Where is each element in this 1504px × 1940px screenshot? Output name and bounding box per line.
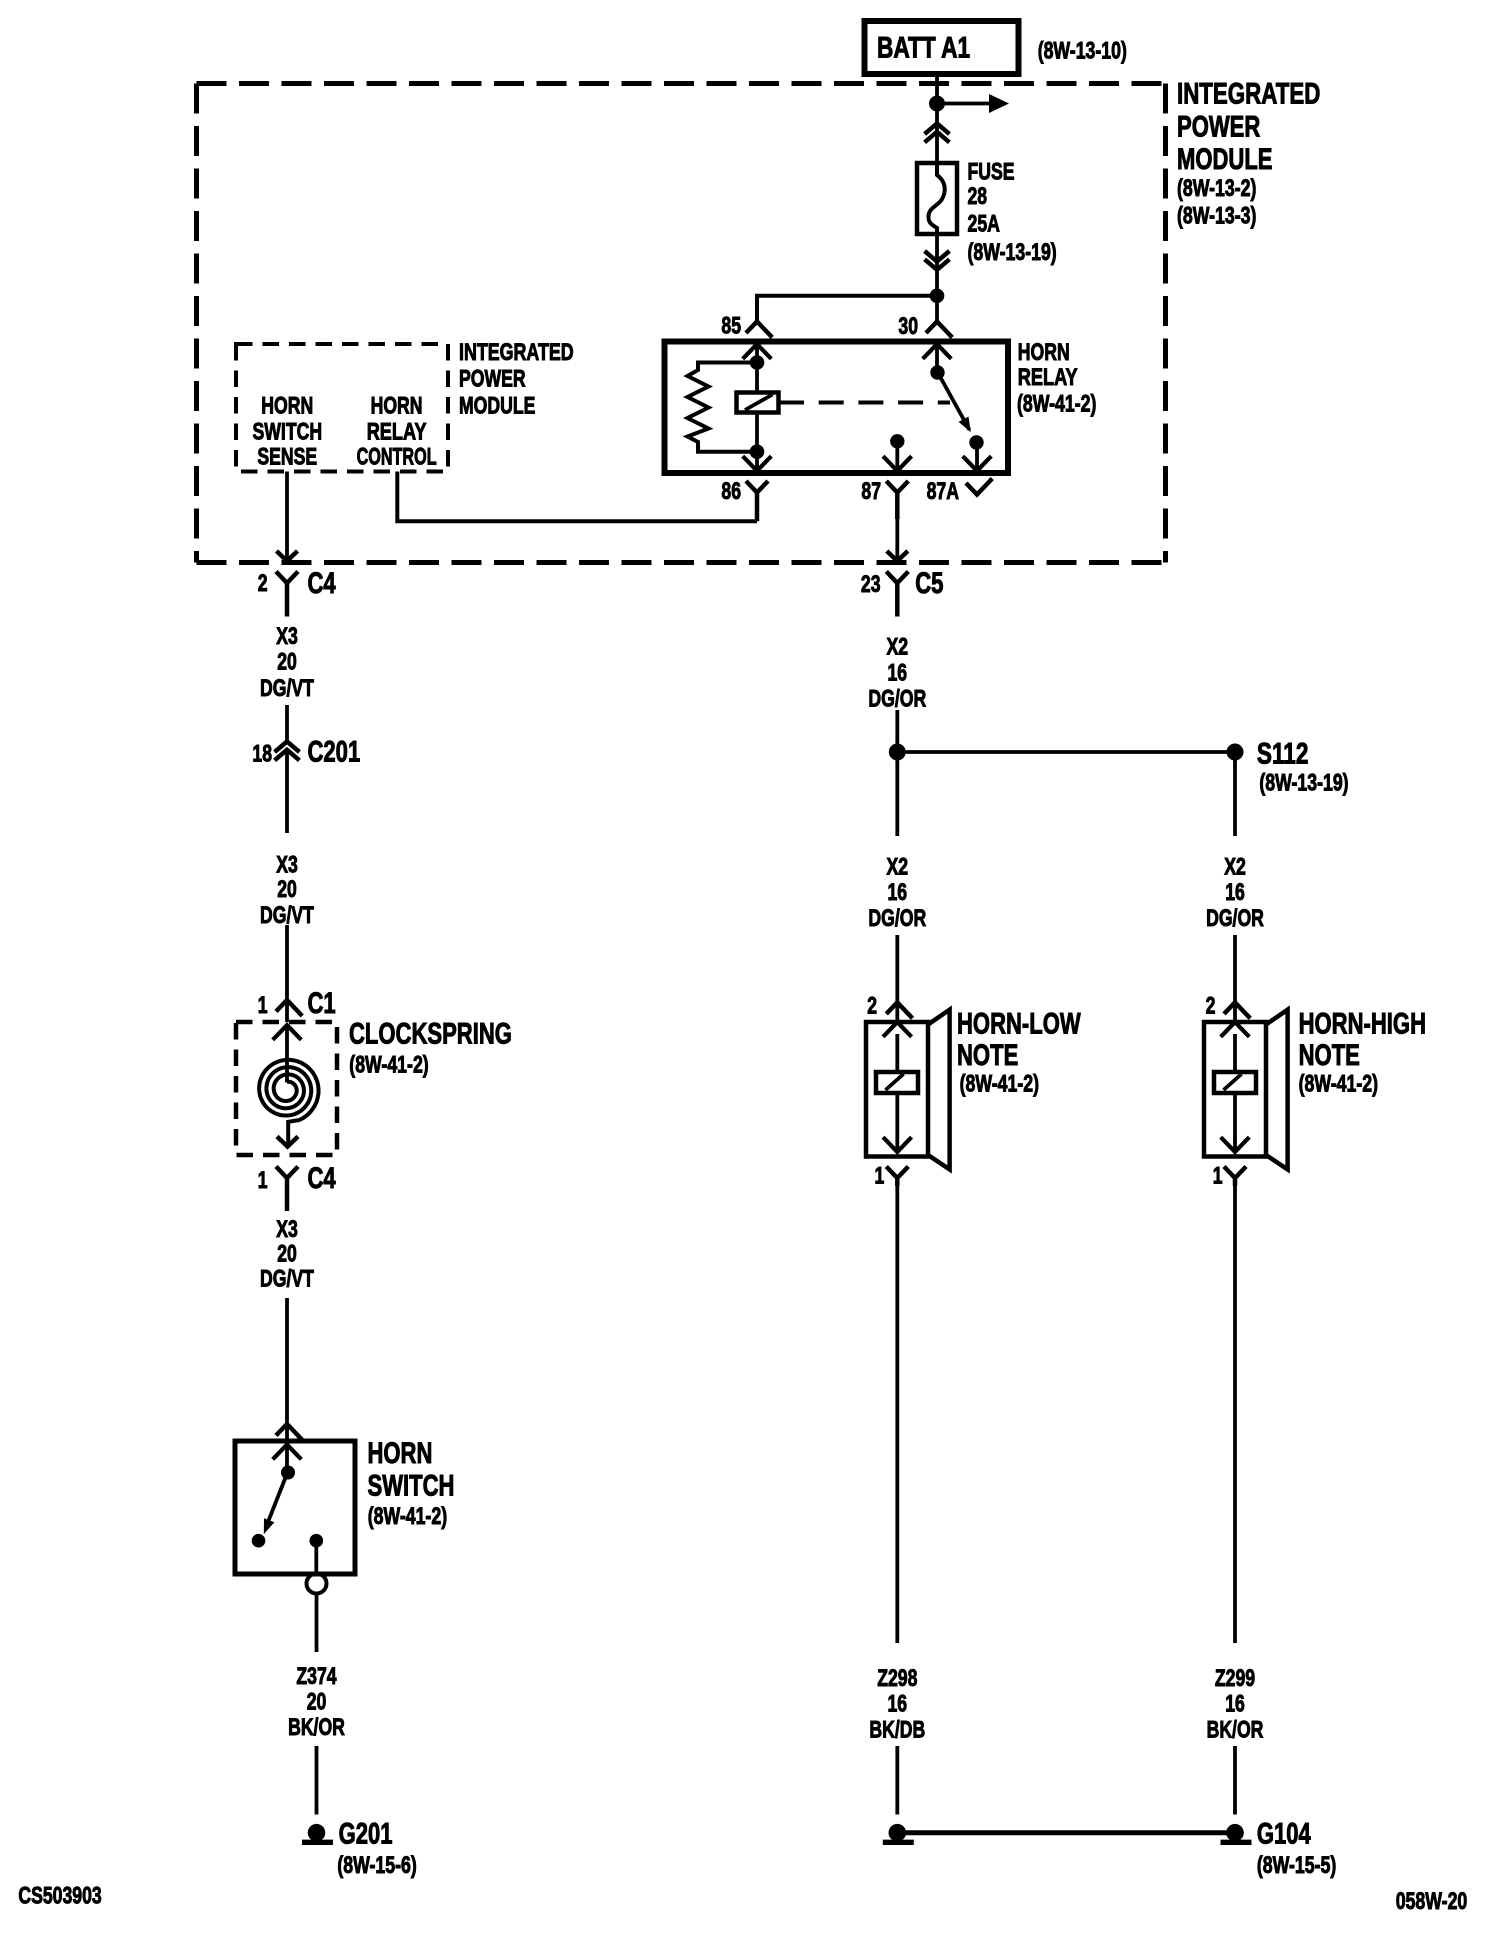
svg-text:20: 20: [277, 1241, 297, 1268]
wire to ground G104: [1233, 1746, 1237, 1815]
svg-text:RELAY: RELAY: [367, 418, 427, 445]
svg-text:X2: X2: [887, 634, 909, 661]
svg-text:(8W-41-2): (8W-41-2): [1017, 391, 1096, 418]
svg-text:(8W-41-2): (8W-41-2): [368, 1503, 447, 1530]
wire: 87 node to box bottom: [895, 441, 899, 471]
svg-text:(8W-13-19): (8W-13-19): [1259, 770, 1348, 797]
svg-text:POWER: POWER: [459, 366, 526, 393]
svg-text:HORN: HORN: [1018, 339, 1070, 366]
wire inside horn low (bottom): [895, 1093, 899, 1152]
svg-text:HORN-HIGH: HORN-HIGH: [1299, 1008, 1426, 1041]
wire inside horn low (top): [895, 1034, 899, 1072]
pin 86 internal arrow (down): [743, 456, 772, 471]
wire to clockspring C1: [285, 925, 289, 1022]
wire segment with circuit label X3 20 DG/VT: [285, 705, 289, 741]
svg-text:2: 2: [867, 992, 877, 1019]
contact node 87A: [969, 435, 983, 449]
wire to horn low note: [895, 935, 899, 1022]
wire: relay pin 87 to C5: [895, 519, 899, 560]
svg-text:16: 16: [888, 1691, 908, 1718]
wire: relay pin 86 to horn relay control: [397, 472, 757, 522]
svg-text:X3: X3: [276, 1216, 298, 1243]
wire: BATT A1 down to fuse: [935, 74, 939, 163]
svg-text:86: 86: [721, 478, 741, 505]
svg-text:S112: S112: [1257, 737, 1309, 770]
svg-text:C5: C5: [915, 567, 943, 600]
svg-text:30: 30: [898, 313, 918, 340]
wire to switch pivot: [285, 1445, 289, 1472]
svg-text:BK/OR: BK/OR: [288, 1714, 345, 1741]
svg-text:85: 85: [721, 313, 741, 340]
svg-text:C201: C201: [308, 736, 361, 769]
connector C4 pin 2 (Y): [276, 572, 298, 617]
switch contact node (left): [252, 1534, 266, 1548]
wire: 87A node to box bottom: [975, 443, 979, 471]
wire: horn low to ground: [895, 1186, 899, 1643]
svg-text:HORN: HORN: [371, 392, 423, 419]
svg-text:DG/OR: DG/OR: [868, 686, 926, 713]
switch common node (30): [930, 365, 944, 379]
clockspring box (dashed): [236, 1022, 337, 1155]
connector C4 pin 1 (Y): [276, 1167, 298, 1212]
relay pin 85 terminal chevron: [746, 322, 772, 338]
svg-text:DG/VT: DG/VT: [260, 1266, 314, 1293]
svg-text:HORN: HORN: [368, 1437, 433, 1470]
svg-text:CLOCKSPRING: CLOCKSPRING: [349, 1018, 512, 1051]
svg-text:16: 16: [888, 879, 908, 906]
svg-text:18: 18: [252, 741, 272, 768]
wire: splice tie to S112: [897, 750, 1235, 754]
wire to horn high note: [1233, 935, 1237, 1022]
switch contact node (right): [310, 1534, 324, 1548]
horn low note body: [866, 1022, 928, 1157]
svg-text:INTEGRATED: INTEGRATED: [1177, 78, 1320, 111]
relay pin 87 connector (Y): [886, 481, 908, 519]
svg-text:G201: G201: [339, 1818, 393, 1851]
svg-text:DG/VT: DG/VT: [260, 675, 314, 702]
battery feed terminal BATT A1: [865, 21, 1019, 74]
switch arm with arrowhead: [266, 1473, 288, 1528]
svg-text:X3: X3: [276, 851, 298, 878]
svg-text:DG/OR: DG/OR: [868, 905, 926, 932]
svg-text:X2: X2: [887, 854, 909, 881]
wire: horn high to ground: [1233, 1186, 1237, 1643]
junction: coil bottom / resistor: [750, 444, 765, 459]
horn switch box: [235, 1441, 355, 1574]
svg-text:DG/VT: DG/VT: [260, 902, 314, 929]
svg-text:DG/OR: DG/OR: [1206, 905, 1264, 932]
svg-text:POWER: POWER: [1177, 110, 1261, 143]
svg-text:20: 20: [307, 1689, 327, 1716]
svg-text:RELAY: RELAY: [1018, 364, 1078, 391]
wire: fuse to relay pin 30: [935, 234, 939, 322]
svg-text:1: 1: [1213, 1163, 1223, 1190]
svg-text:(8W-13-10): (8W-13-10): [1038, 38, 1127, 65]
wire: pin 85 to relay coil: [755, 344, 759, 394]
pin 85 internal terminal arrow: [743, 344, 772, 359]
junction node: feed splits to pins 85/30: [930, 289, 945, 304]
wire to ground node (left): [895, 1746, 899, 1815]
connector C201 pin 18 pass-through chevrons: [275, 742, 300, 753]
svg-text:1: 1: [258, 992, 268, 1019]
clockspring spiral coil: [259, 1060, 318, 1147]
pin 87 internal arrow (down): [883, 456, 912, 471]
arrow into connector C4: [277, 551, 298, 561]
svg-text:23: 23: [861, 571, 881, 598]
svg-text:20: 20: [277, 876, 297, 903]
pin 30 internal terminal arrow: [923, 344, 952, 359]
horn high internal arrow (bottom): [1221, 1137, 1250, 1152]
svg-text:25A: 25A: [968, 211, 1000, 238]
svg-text:C4: C4: [308, 1162, 336, 1195]
svg-text:(8W-15-6): (8W-15-6): [337, 1852, 416, 1879]
pin 87A internal arrow (down): [963, 456, 992, 471]
svg-text:NOTE: NOTE: [957, 1039, 1018, 1072]
horn switch terminal ring: [307, 1574, 327, 1594]
svg-text:SENSE: SENSE: [257, 444, 317, 471]
wire to horn switch: [285, 1298, 289, 1441]
svg-text:(8W-13-2): (8W-13-2): [1177, 175, 1256, 202]
svg-text:(8W-41-2): (8W-41-2): [349, 1052, 428, 1079]
horn low coil: [876, 1072, 918, 1093]
suppression resistor across coil: [688, 363, 758, 452]
IPM outputs box (dashed): [236, 344, 448, 472]
svg-text:(8W-13-3): (8W-13-3): [1177, 203, 1256, 230]
svg-text:CONTROL: CONTROL: [357, 444, 437, 471]
svg-text:HORN: HORN: [261, 392, 313, 419]
wire into clockspring spiral centre: [285, 1025, 289, 1083]
svg-text:HORN-LOW: HORN-LOW: [957, 1008, 1081, 1041]
svg-text:Z374: Z374: [296, 1663, 337, 1690]
ground tie line to G104: [897, 1830, 1235, 1835]
wire: pin 30 to switch common: [935, 344, 939, 372]
svg-text:(8W-13-19): (8W-13-19): [968, 239, 1057, 266]
fuse 28 25A: [917, 163, 957, 234]
svg-text:1: 1: [875, 1163, 885, 1190]
svg-text:BK/DB: BK/DB: [869, 1717, 925, 1744]
svg-text:Z298: Z298: [877, 1665, 917, 1692]
integrated power module boundary (dashed box): [197, 81, 1166, 86]
switch pivot node: [281, 1466, 295, 1480]
svg-text:(8W-41-2): (8W-41-2): [960, 1071, 1039, 1098]
horn high note body: [1204, 1022, 1266, 1157]
svg-text:MODULE: MODULE: [1177, 143, 1273, 176]
relay switch arm with arrowhead: [938, 372, 970, 430]
svg-text:16: 16: [1225, 1691, 1245, 1718]
wire: junction to relay pin 85: [757, 296, 937, 322]
wire: horn switch sense to C4: [285, 472, 289, 561]
svg-text:INTEGRATED: INTEGRATED: [459, 339, 574, 366]
horn high pin 1 (Y): [1224, 1167, 1246, 1187]
splice S112 node: [1227, 744, 1244, 761]
wire inside horn high (top): [1233, 1034, 1237, 1072]
wire inside horn high (bottom): [1233, 1093, 1237, 1152]
pass-through chevrons above fuse: [925, 124, 950, 135]
svg-text:BATT A1: BATT A1: [877, 32, 970, 65]
relay pin 86 connector (Y): [746, 481, 768, 521]
svg-text:Z299: Z299: [1215, 1665, 1255, 1692]
horn switch terminal chevron: [276, 1424, 302, 1440]
contact node 87: [890, 434, 904, 448]
svg-text:(8W-41-2): (8W-41-2): [1299, 1071, 1378, 1098]
horn low pin 2 chevron: [886, 1002, 912, 1018]
junction node at battery feed: [929, 96, 945, 112]
connector C5 pin 23 (Y): [886, 572, 908, 617]
svg-text:2: 2: [1206, 992, 1216, 1019]
wire below C201: [285, 752, 289, 833]
svg-text:G104: G104: [1257, 1818, 1311, 1851]
horn low internal arrow (top): [883, 1022, 912, 1037]
wire below splice (horn low branch): [895, 752, 899, 836]
svg-text:X2: X2: [1224, 854, 1246, 881]
wire: contact to terminal ring: [314, 1541, 318, 1574]
svg-text:28: 28: [968, 183, 988, 210]
wire below S112 (horn high branch): [1233, 760, 1237, 836]
svg-text:(8W-15-5): (8W-15-5): [1257, 1852, 1336, 1879]
svg-text:FUSE: FUSE: [968, 159, 1015, 186]
wire to splice S112: [895, 710, 899, 752]
pin 87A external chevron: [966, 479, 992, 495]
svg-text:CS503903: CS503903: [18, 1883, 101, 1910]
horn high pin 2 chevron: [1224, 1002, 1250, 1018]
svg-text:C4: C4: [308, 567, 336, 600]
wire: coil bottom to pin 86: [755, 411, 759, 471]
relay coil: [737, 393, 779, 413]
ground G104 symbol: [1226, 1824, 1244, 1842]
svg-text:20: 20: [277, 649, 297, 676]
svg-text:NOTE: NOTE: [1299, 1039, 1360, 1072]
clockspring internal arrow: [273, 1025, 302, 1040]
relay pin 30 terminal chevron: [926, 322, 952, 338]
horn low pin 1 (Y): [886, 1167, 908, 1187]
ground node (horn low): [889, 1824, 907, 1842]
ground G201 symbol: [308, 1824, 326, 1842]
splice junction node: [889, 744, 906, 761]
svg-text:MODULE: MODULE: [459, 393, 535, 420]
svg-text:87: 87: [861, 478, 881, 505]
svg-text:16: 16: [888, 660, 908, 687]
horn switch internal arrow: [273, 1445, 302, 1460]
wire to ground G201: [315, 1746, 319, 1815]
pass-through chevrons below fuse: [925, 251, 950, 262]
svg-text:1: 1: [258, 1167, 268, 1194]
horn high internal arrow (top): [1221, 1022, 1250, 1037]
svg-text:058W-20: 058W-20: [1396, 1888, 1468, 1915]
feed arrow to other circuits: [937, 102, 991, 106]
svg-text:BK/OR: BK/OR: [1207, 1717, 1264, 1744]
svg-text:87A: 87A: [927, 478, 959, 505]
connector C1 chevron: [276, 1000, 302, 1016]
horn high coil: [1214, 1072, 1256, 1093]
svg-text:X3: X3: [276, 623, 298, 650]
horn relay box: [665, 342, 1009, 474]
svg-text:2: 2: [258, 570, 268, 597]
svg-text:SWITCH: SWITCH: [368, 1470, 455, 1503]
svg-text:16: 16: [1225, 879, 1245, 906]
clockspring output arrow (down): [277, 1137, 298, 1147]
wire below horn switch: [315, 1594, 319, 1653]
svg-text:SWITCH: SWITCH: [253, 418, 323, 445]
coil-to-contact dashed actuation link: [779, 401, 950, 405]
arrow into connector C5: [887, 551, 908, 561]
svg-text:C1: C1: [308, 987, 336, 1020]
horn low internal arrow (bottom): [883, 1137, 912, 1152]
junction: coil top / resistor: [750, 355, 765, 370]
